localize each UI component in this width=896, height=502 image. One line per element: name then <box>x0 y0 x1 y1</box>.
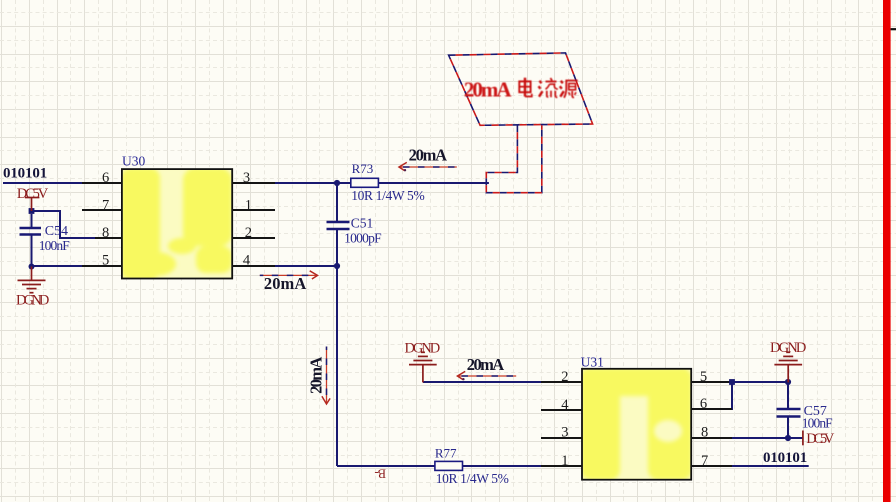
svg-text:010101: 010101 <box>3 165 47 181</box>
svg-text:7: 7 <box>701 453 708 469</box>
svg-text:7: 7 <box>102 197 109 213</box>
svg-text:B-: B- <box>374 466 386 480</box>
svg-text:2: 2 <box>561 369 568 385</box>
svg-text:010101: 010101 <box>763 450 807 466</box>
svg-text:U30: U30 <box>122 153 145 168</box>
svg-text:1000pF: 1000pF <box>344 230 382 245</box>
svg-text:C54: C54 <box>45 224 68 239</box>
svg-text:8: 8 <box>701 425 708 441</box>
svg-text:R77: R77 <box>435 446 457 461</box>
svg-text:100nF: 100nF <box>39 238 71 253</box>
svg-text:20mA: 20mA <box>306 357 325 394</box>
svg-text:DC5V: DC5V <box>806 431 835 447</box>
svg-text:10R 1/4W 5%: 10R 1/4W 5% <box>351 188 425 203</box>
svg-text:6: 6 <box>102 170 109 186</box>
svg-text:DGND: DGND <box>405 341 441 357</box>
svg-text:4: 4 <box>243 252 251 268</box>
svg-text:20mA: 20mA <box>264 274 306 293</box>
svg-text:U31: U31 <box>581 355 604 370</box>
svg-text:10R 1/4W 5%: 10R 1/4W 5% <box>436 471 509 486</box>
svg-text:4: 4 <box>561 397 569 413</box>
svg-text:3: 3 <box>243 170 250 186</box>
svg-text:6: 6 <box>700 396 707 412</box>
svg-text:DGND: DGND <box>16 293 49 309</box>
svg-text:DC5V: DC5V <box>17 186 49 202</box>
svg-text:5: 5 <box>700 369 707 385</box>
svg-text:20mA: 20mA <box>467 355 504 374</box>
svg-text:5: 5 <box>102 252 109 268</box>
svg-text:1: 1 <box>561 453 568 469</box>
svg-text:20mA: 20mA <box>409 146 447 165</box>
svg-text:20mA: 20mA <box>464 78 513 102</box>
svg-text:2: 2 <box>245 225 252 241</box>
svg-text:8: 8 <box>102 225 109 241</box>
svg-text:100nF: 100nF <box>802 416 833 431</box>
svg-text:3: 3 <box>561 425 568 441</box>
svg-text:DGND: DGND <box>770 340 806 356</box>
svg-text:C51: C51 <box>351 216 374 231</box>
svg-text:1: 1 <box>245 197 252 213</box>
svg-text:R73: R73 <box>352 161 374 176</box>
